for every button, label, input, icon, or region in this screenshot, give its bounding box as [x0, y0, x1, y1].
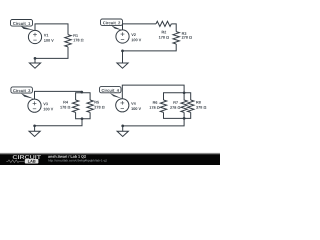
- label V1 100V: [44, 34, 54, 42]
- wire return circuit 4: [123, 118, 184, 126]
- node top bus circuit 4: [183, 91, 186, 94]
- resistor R7: [181, 93, 187, 113]
- wire V2 top to R2 left: [123, 24, 157, 30]
- wire R3 bottom to V2 bottom: [123, 44, 177, 51]
- node V1 negative junction: [34, 57, 37, 60]
- node bottom bus circuit 4: [183, 117, 186, 120]
- node V2 negative junction: [121, 50, 124, 53]
- label V3 100V: [43, 103, 53, 111]
- wire R2 right to R3 top: [171, 24, 176, 32]
- wire return circuit 3: [35, 119, 82, 126]
- wire parallel bus top circuit 3: [76, 93, 91, 100]
- watermark title text: [48, 155, 86, 158]
- ground circuit 3: [29, 126, 40, 137]
- ground circuit 4: [117, 126, 128, 137]
- label V4 100V: [131, 102, 141, 110]
- logo resistor zigzag: [6, 160, 24, 163]
- voltage source V4: [116, 99, 129, 112]
- label R6 178ohm: [150, 101, 160, 109]
- logo CircuitLab wordmark: [13, 155, 41, 159]
- node top bus circuit 3: [80, 91, 83, 94]
- label R2 178ohm: [159, 31, 169, 39]
- ground circuit 1: [29, 58, 40, 68]
- label R1 178ohm: [73, 34, 83, 41]
- voltage source V1: [28, 30, 41, 43]
- label V2 100V: [131, 33, 141, 41]
- annotation Circuit_1: [11, 20, 36, 31]
- label R8 378ohm: [196, 101, 206, 109]
- wire R1 bottom to V1 bottom: [35, 47, 68, 59]
- annotation Circuit_2: [101, 19, 123, 30]
- label R3 278ohm: [182, 32, 192, 38]
- resistor R8: [188, 100, 194, 112]
- resistor R5: [87, 100, 93, 112]
- node V4 negative junction: [121, 125, 124, 128]
- logo LAB badge: [25, 159, 39, 164]
- label R7 278ohm: [170, 101, 180, 109]
- resistor R6: [160, 100, 166, 112]
- annotation Circuit_3: [11, 87, 35, 99]
- resistor R2: [156, 21, 171, 26]
- wire V1 top to R1 top: [35, 24, 68, 35]
- resistor R3: [173, 32, 179, 44]
- node V3 negative junction: [33, 124, 36, 127]
- resistor R1: [65, 35, 71, 47]
- label R5 278ohm: [94, 101, 104, 109]
- resistor R4: [72, 100, 78, 112]
- voltage source V3: [28, 99, 41, 112]
- watermark url text: [48, 159, 107, 162]
- label R4 178ohm: [60, 101, 70, 109]
- wire V3 top to parallel bus: [35, 91, 82, 99]
- wire parallel bus bottom circuit 4: [164, 112, 191, 118]
- ground circuit 2: [117, 51, 128, 68]
- node bottom bus circuit 3: [81, 117, 84, 120]
- wire parallel bus bottom circuit 3: [76, 112, 91, 118]
- voltage source V2: [116, 30, 129, 43]
- wire V4 top to parallel bus: [122, 85, 184, 99]
- wire parallel bus top circuit 4: [164, 93, 191, 100]
- annotation Circuit_4: [100, 87, 123, 99]
